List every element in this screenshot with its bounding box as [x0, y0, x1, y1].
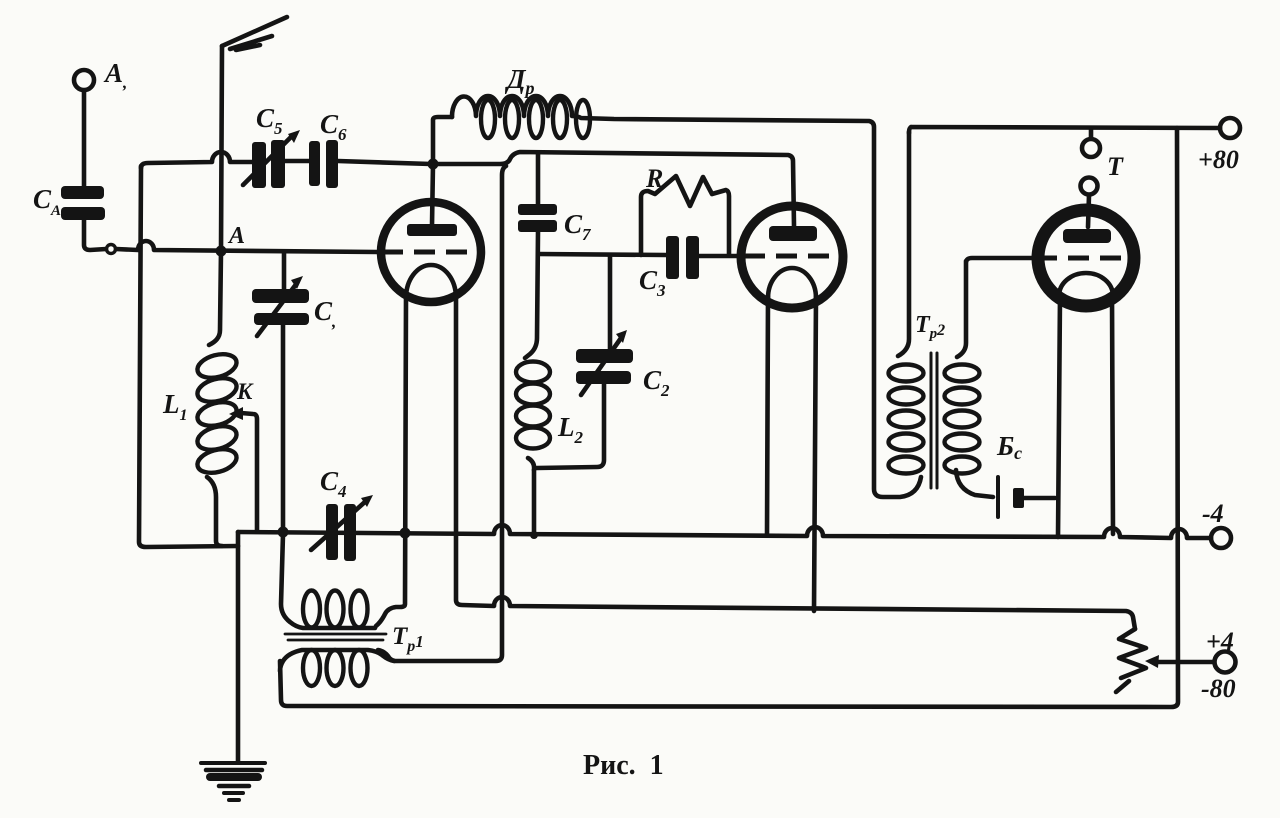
svg-text:T: T	[1107, 152, 1124, 181]
svg-text:+80: +80	[1198, 145, 1239, 174]
svg-text:A: A	[227, 223, 245, 249]
svg-text:+4: +4	[1206, 627, 1234, 656]
svg-text:-80: -80	[1201, 674, 1236, 703]
svg-text:K: K	[236, 379, 254, 404]
svg-text:R: R	[645, 164, 663, 193]
svg-text:-4: -4	[1202, 499, 1224, 528]
svg-text:Рис. 1: Рис. 1	[583, 750, 664, 781]
